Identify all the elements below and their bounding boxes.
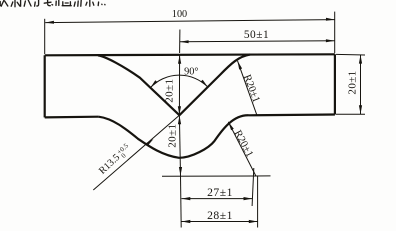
plate top edge xyxy=(45,54,335,55)
svg-text:100: 100 xyxy=(172,9,187,20)
arrow arc right xyxy=(201,80,208,87)
arrow 50 right xyxy=(326,39,335,42)
svg-text:R20±1: R20±1 xyxy=(232,129,255,160)
svg-text:27±1: 27±1 xyxy=(207,186,233,199)
svg-text:20±1: 20±1 xyxy=(346,70,358,94)
groove right wall xyxy=(179,55,250,116)
centerline extension above xyxy=(179,30,181,54)
plate bottom edge right xyxy=(249,113,335,116)
right thickness dimension line xyxy=(360,55,362,114)
svg-text:20±1: 20±1 xyxy=(163,79,175,103)
right thickness extension top xyxy=(336,53,365,56)
arrow right20 bottom xyxy=(359,105,362,114)
arrow 27 right xyxy=(244,197,253,200)
arrow 28 left xyxy=(182,220,191,223)
arrow R20 upper xyxy=(238,61,243,70)
extension 28 right xyxy=(257,176,259,228)
extension 27 right xyxy=(252,168,254,206)
arrow R20 lower xyxy=(228,122,234,131)
arrow 100 left xyxy=(45,21,54,24)
svg-text:20±1: 20±1 xyxy=(166,124,178,148)
dimension line 27±1 xyxy=(182,198,253,200)
svg-text:R13.5: R13.5 xyxy=(97,152,122,177)
extension line right xyxy=(334,12,336,53)
angle arc 90° xyxy=(150,75,207,87)
caption text fragments (clipped at top) xyxy=(0,0,105,7)
svg-text:90°: 90° xyxy=(184,66,198,77)
svg-text:R20±1: R20±1 xyxy=(241,73,262,104)
arrow 100 right xyxy=(326,18,335,21)
groove depth dimension line xyxy=(178,55,180,115)
arrow groove-depth bottom xyxy=(178,106,181,115)
dimension line 100 xyxy=(45,20,335,23)
svg-text:28±1: 28±1 xyxy=(207,209,233,222)
arrow arc left xyxy=(150,80,157,87)
svg-text:0: 0 xyxy=(120,152,128,160)
groove left wall xyxy=(98,55,179,115)
arrow bead-depth top xyxy=(178,115,181,124)
arrow right20 top xyxy=(359,55,362,64)
plate bottom edge left xyxy=(45,116,99,119)
arrow R13.5 xyxy=(146,139,154,146)
arrow 50 left xyxy=(180,40,189,43)
arrow bead-depth bottom xyxy=(179,167,182,176)
right thickness extension bottom xyxy=(336,113,365,115)
plate right edge xyxy=(334,54,336,114)
dimension line 28±1 xyxy=(182,221,258,223)
centerline extension below xyxy=(180,176,183,228)
arrow groove-depth top xyxy=(178,55,181,64)
leader R20 upper xyxy=(238,61,257,115)
dimension line 50±1 xyxy=(180,41,335,42)
arrow 27 left xyxy=(182,197,191,200)
arrow 28 right xyxy=(249,220,258,223)
bead depth dimension line xyxy=(179,115,180,176)
tangent datum line xyxy=(162,175,271,177)
extension line left xyxy=(44,19,46,54)
arrowheads xyxy=(45,18,362,223)
leader R13.5 xyxy=(93,115,179,190)
svg-text:50±1: 50±1 xyxy=(244,29,269,41)
leader R20 lower xyxy=(228,122,256,176)
label R13.5 +0.5/0 xyxy=(97,142,134,178)
root bead contour xyxy=(99,115,249,158)
plate left edge xyxy=(44,55,46,117)
